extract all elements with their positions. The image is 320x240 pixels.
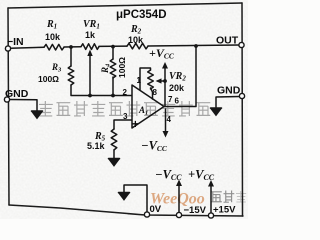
wire -15V riser (178, 185, 180, 212)
svg-text:GND: GND (217, 85, 241, 97)
svg-text:+15V: +15V (213, 205, 236, 216)
svg-text:−IN: −IN (7, 36, 24, 48)
ground (R5) (109, 159, 120, 166)
border frame right (241, 3, 244, 216)
svg-text:1: 1 (137, 76, 142, 85)
resistor R3 (68, 66, 74, 85)
terminal 0V (144, 212, 149, 217)
wire R2 to OUT (148, 45, 239, 46)
border frame top (8, 3, 242, 8)
potentiometer VR2 element (148, 70, 154, 89)
svg-text:100Ω: 100Ω (117, 57, 127, 78)
svg-text:5.1k: 5.1k (87, 141, 106, 151)
wire output pin6 to feedback node (164, 46, 196, 107)
wire pin1 loop to VR2 top (140, 68, 151, 90)
node R4/pin2 junction (111, 94, 115, 98)
svg-text:μPC354D: μPC354D (116, 9, 167, 21)
wire node R3 drop (70, 47, 72, 66)
resistor R2 (127, 43, 148, 49)
ground (right GND) (211, 108, 222, 115)
wire 0V to ground (124, 185, 147, 212)
wire -IN to R1 (11, 46, 45, 49)
resistor R4 (110, 59, 116, 78)
svg-text:10k: 10k (45, 32, 61, 42)
watermark 维库 (211, 191, 234, 203)
ground (0V) (119, 193, 130, 200)
VR1 wiper arrowhead (87, 50, 92, 57)
svg-text:8: 8 (153, 88, 158, 97)
terminal +15V (208, 213, 213, 218)
+15V +Vcc arrowhead (208, 180, 214, 187)
op-amp A1 triangle (132, 85, 164, 128)
wire +15V riser (210, 186, 212, 214)
terminal GND left (4, 97, 9, 102)
watermark 杭州将睿科技有限公司 (39, 101, 210, 116)
wire node R4 drop (112, 47, 114, 59)
svg-text:2: 2 (123, 88, 128, 97)
wire R1 to VR1 (64, 46, 81, 48)
svg-text:1k: 1k (85, 30, 96, 40)
wire pin3 to R5 (114, 120, 132, 129)
wire VR1 to R2 (99, 45, 127, 47)
potentiometer VR1 element (81, 44, 99, 50)
border frame left (8, 8, 9, 205)
node VR1/R2/R4 junction (111, 45, 115, 49)
wire R3 bottom to pin2 rail (71, 85, 132, 96)
resistor R5 (111, 129, 117, 150)
svg-text:100Ω: 100Ω (38, 74, 59, 84)
svg-text:0V: 0V (150, 204, 162, 215)
node R1/VR1/R3 junction (69, 45, 73, 49)
svg-text:10k: 10k (128, 35, 144, 45)
node output/OUT junction (194, 44, 198, 48)
wire R5 to ground (113, 150, 115, 158)
wire VR2 wiper (158, 80, 165, 82)
node wiper/pin2 junction (88, 94, 92, 98)
svg-text:6: 6 (175, 97, 180, 106)
wire GND left to ground (10, 100, 38, 111)
svg-text:−15V: −15V (184, 205, 207, 216)
svg-text:GND: GND (5, 88, 29, 100)
wire +Vcc supply to pin7 (164, 65, 166, 106)
svg-text:+: + (132, 119, 139, 131)
-Vcc pin4 arrowhead (163, 131, 169, 138)
wire VR1 wiper (89, 55, 91, 96)
resistor R1 (44, 44, 64, 50)
node VR2 wiper/+Vcc junction (163, 79, 167, 83)
-15V -Vcc arrowhead (176, 180, 182, 187)
wire GND right to ground (216, 97, 240, 108)
VR2 wiper arrowhead (156, 78, 162, 83)
svg-text:7: 7 (168, 95, 173, 104)
border frame bottom (9, 205, 243, 216)
terminal OUT (239, 42, 244, 47)
wire pin4 down (165, 109, 167, 132)
ground (left GND) (32, 111, 43, 118)
terminal -15V (176, 212, 181, 217)
wire R4 bottom (112, 77, 114, 96)
+Vcc arrowhead (162, 62, 168, 69)
svg-text:4: 4 (167, 115, 172, 124)
svg-text:3: 3 (123, 112, 128, 121)
svg-text:OUT: OUT (216, 35, 239, 47)
wire VR2 bottom to pin8 (151, 88, 153, 99)
svg-text:20k: 20k (169, 83, 185, 93)
terminal GND right (239, 93, 244, 98)
terminal -IN (5, 46, 10, 51)
